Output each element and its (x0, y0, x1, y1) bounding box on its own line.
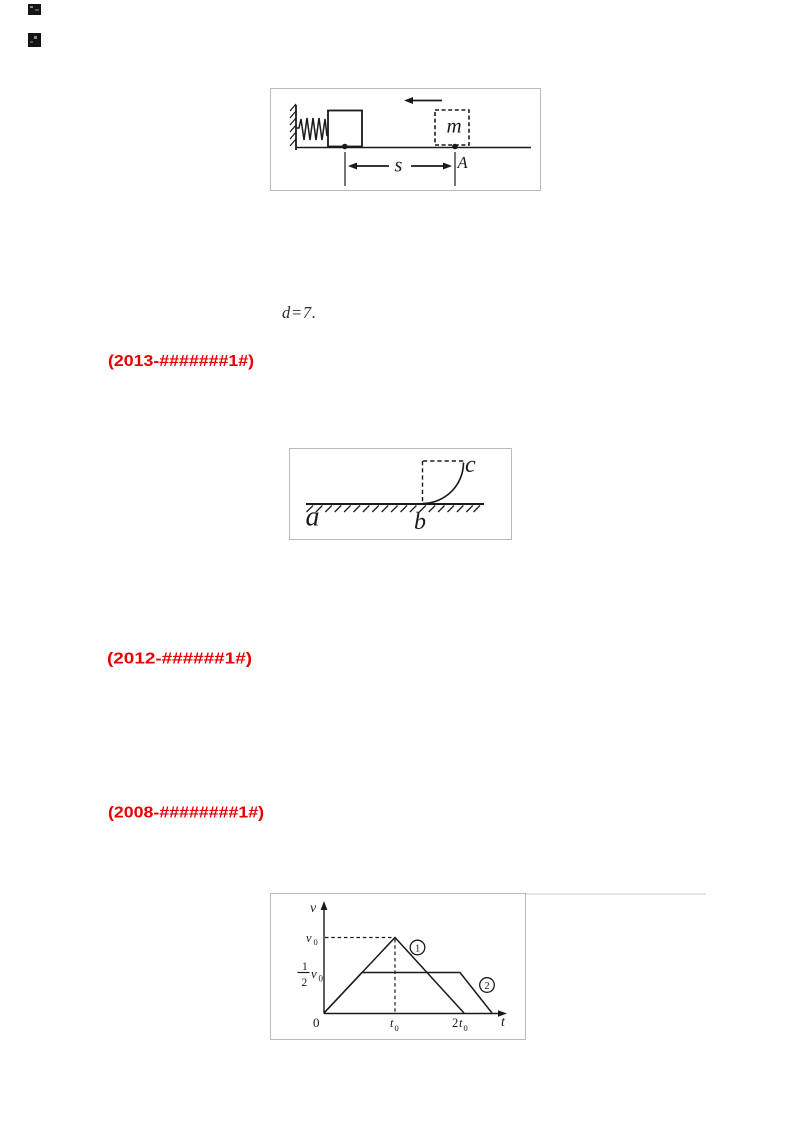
svg-text:s: s (395, 155, 403, 177)
figure 2: ground hatching (307, 506, 481, 513)
figure 1: dashed block m (435, 110, 469, 145)
figure 2: dashed vertical (422, 461, 424, 503)
svg-text:(2008-########1#): (2008-########1#) (108, 805, 264, 822)
figure 2: arc b to c (423, 463, 464, 504)
figure 3: v axis (321, 901, 328, 1014)
figure 3: t axis (324, 1010, 507, 1017)
figure 3: dashed t0 line (394, 939, 396, 1012)
figure 2 box (290, 449, 512, 540)
svg-text:a: a (306, 502, 320, 533)
figure 3: circled 2 (480, 978, 495, 993)
figure 3: circled 1 (410, 940, 425, 955)
figure 1: wall (290, 104, 296, 150)
svg-text:c: c (465, 452, 476, 478)
figure 3 box (271, 894, 526, 1040)
top-left mark 2 (28, 33, 41, 47)
figure 2: ground line (306, 503, 484, 505)
svg-text:(2013-#######1#): (2013-#######1#) (108, 353, 254, 370)
figure 2: dashed horizontal (423, 460, 464, 462)
svg-text:v: v (310, 901, 317, 916)
svg-text:2: 2 (484, 981, 489, 992)
svg-text:0: 0 (314, 937, 318, 947)
svg-text:A: A (457, 153, 469, 172)
svg-text:(2012-######1#): (2012-######1#) (107, 651, 252, 668)
svg-text:1: 1 (415, 944, 420, 955)
figure 1 box (271, 89, 541, 191)
figure 1: spring (296, 118, 329, 140)
svg-text:v: v (311, 966, 317, 981)
figure 1: left arrow (404, 97, 442, 104)
svg-text:0: 0 (319, 974, 324, 984)
svg-text:d=7.: d=7. (282, 303, 316, 322)
svg-text:2: 2 (302, 977, 308, 989)
svg-text:2: 2 (452, 1016, 458, 1030)
figure 1: tick below A (454, 152, 456, 186)
svg-text:t: t (390, 1016, 394, 1030)
svg-text:1: 1 (302, 961, 308, 973)
svg-text:b: b (414, 509, 426, 535)
figure 3: line 2 trapezoid (324, 973, 492, 1014)
figure 1: block (328, 111, 362, 147)
figure 1: tick below block (344, 152, 346, 186)
svg-text:v: v (306, 931, 312, 945)
figure 1: dot at block (342, 144, 348, 150)
figure 1: s double arrow (348, 163, 452, 170)
svg-text:t: t (459, 1016, 463, 1030)
figure 1: dot at A (452, 144, 458, 150)
svg-text:m: m (447, 114, 462, 138)
figure 3: one half fraction (298, 961, 324, 989)
figure 3: dashed v0 line (325, 937, 394, 939)
figure 3: line 1 triangle (324, 938, 464, 1014)
svg-text:0: 0 (313, 1015, 320, 1030)
svg-text:0: 0 (464, 1023, 468, 1033)
top-left mark 1 (28, 4, 41, 15)
figure 1: ground line (296, 147, 531, 149)
figure 3: top extension line (526, 893, 706, 895)
svg-text:0: 0 (395, 1023, 399, 1033)
